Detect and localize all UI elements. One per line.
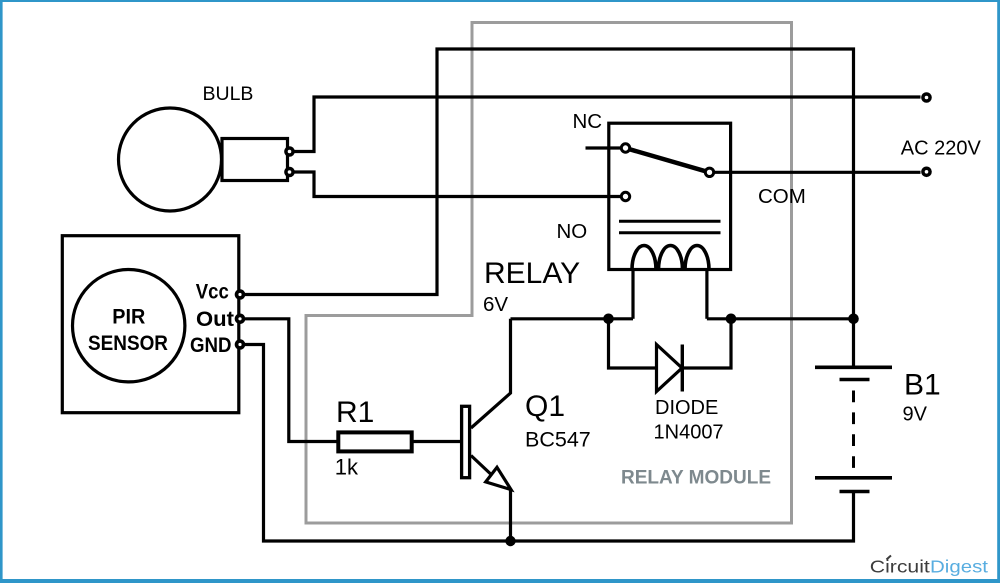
relay module boundary (gray box) — [306, 23, 792, 524]
lamp LA1 (bulb) — [119, 108, 288, 211]
svg-text:RELAY MODULE: RELAY MODULE — [621, 467, 771, 489]
svg-text:9V: 9V — [903, 403, 928, 425]
svg-text:B1: B1 — [904, 369, 941, 402]
PIR sensor U1 body — [62, 236, 239, 413]
diode D1 anode lead — [609, 319, 657, 368]
junction emitter/ground rail — [505, 536, 515, 546]
bulb terminal bottom — [284, 167, 295, 178]
wire NC stub — [586, 146, 621, 149]
Q1 emitter arrow — [486, 467, 511, 489]
relay common contact — [705, 168, 713, 176]
relay coil lead left — [631, 269, 634, 319]
wire Out net: PIR Out to R1 — [245, 319, 338, 442]
relay NC contact — [621, 144, 629, 152]
battery B1 bottom long plate — [815, 476, 892, 480]
svg-text:Out: Out — [196, 308, 234, 331]
svg-text:SENSOR: SENSOR — [88, 331, 168, 355]
svg-text:BC547: BC547 — [525, 428, 591, 452]
bulb terminal top — [284, 146, 295, 157]
battery B1 bottom short plate — [840, 490, 870, 493]
svg-text:DIODE: DIODE — [655, 397, 718, 419]
PIR Vcc pin terminal — [235, 289, 246, 300]
relay core line 1 — [619, 220, 721, 223]
relay NO contact — [621, 192, 629, 200]
transistor Q1 base bar — [462, 406, 470, 477]
diode D1 cathode lead — [682, 319, 731, 368]
diode D1 cathode bar — [681, 345, 684, 392]
Q1 emitter lead — [471, 456, 497, 481]
svg-text:6V: 6V — [483, 293, 508, 316]
battery dashed cell link — [852, 391, 855, 470]
wire COM to AC terminal N — [715, 171, 921, 174]
svg-text:Digest: Digest — [930, 556, 988, 576]
svg-text:AC 220V: AC 220V — [901, 137, 982, 159]
PIR Out pin terminal — [235, 314, 246, 325]
svg-text:Circuit: Circuit — [870, 556, 930, 576]
svg-text:RELAY: RELAY — [484, 257, 580, 290]
Q1 collector lead — [471, 319, 511, 428]
Q1 emitter lead to ground rail — [509, 490, 512, 541]
junction diode anode / coil left — [603, 314, 614, 325]
svg-text:1k: 1k — [335, 454, 359, 479]
relay coil lead right — [705, 269, 708, 319]
PIR GND pin terminal — [235, 339, 246, 350]
svg-text:GND: GND — [190, 334, 232, 357]
svg-text:NO: NO — [557, 220, 588, 243]
relay core line 2 — [619, 231, 721, 234]
AC terminal L — [921, 92, 932, 103]
PIR sensor lens circle — [73, 270, 185, 382]
junction coil right / battery + — [848, 314, 859, 325]
AC terminal N — [921, 167, 932, 178]
diode D1 triangle — [657, 345, 683, 392]
svg-text:R1: R1 — [336, 396, 374, 429]
battery B1 top short plate — [840, 378, 870, 381]
wire coil left to Q1 collector — [511, 317, 634, 320]
relay coil — [632, 246, 709, 270]
wire R1 to Q1 base — [412, 440, 462, 443]
svg-text:PIR: PIR — [112, 305, 145, 329]
wire Vcc net: PIR Vcc to battery + — [245, 49, 854, 367]
battery B1 top long plate — [815, 365, 892, 369]
resistor R1 — [338, 432, 411, 451]
svg-text:Q1: Q1 — [525, 390, 565, 423]
svg-text:COM: COM — [758, 185, 806, 208]
svg-text:NC: NC — [573, 110, 603, 133]
wire GND net: PIR GND to battery - (bottom rail) — [245, 345, 854, 542]
relay K1 body — [609, 123, 731, 269]
svg-text:1N4007: 1N4007 — [654, 422, 724, 444]
svg-text:Vcc: Vcc — [196, 280, 229, 303]
junction diode cathode / coil right — [726, 314, 737, 325]
CircuitDigest logo — [870, 556, 988, 577]
wire bulb top to AC terminal L — [294, 97, 921, 152]
relay switch arm — [630, 149, 706, 171]
wire bulb bottom to relay NO — [294, 172, 620, 197]
wire coil right to battery + — [707, 317, 854, 320]
svg-text:BULB: BULB — [203, 83, 254, 105]
